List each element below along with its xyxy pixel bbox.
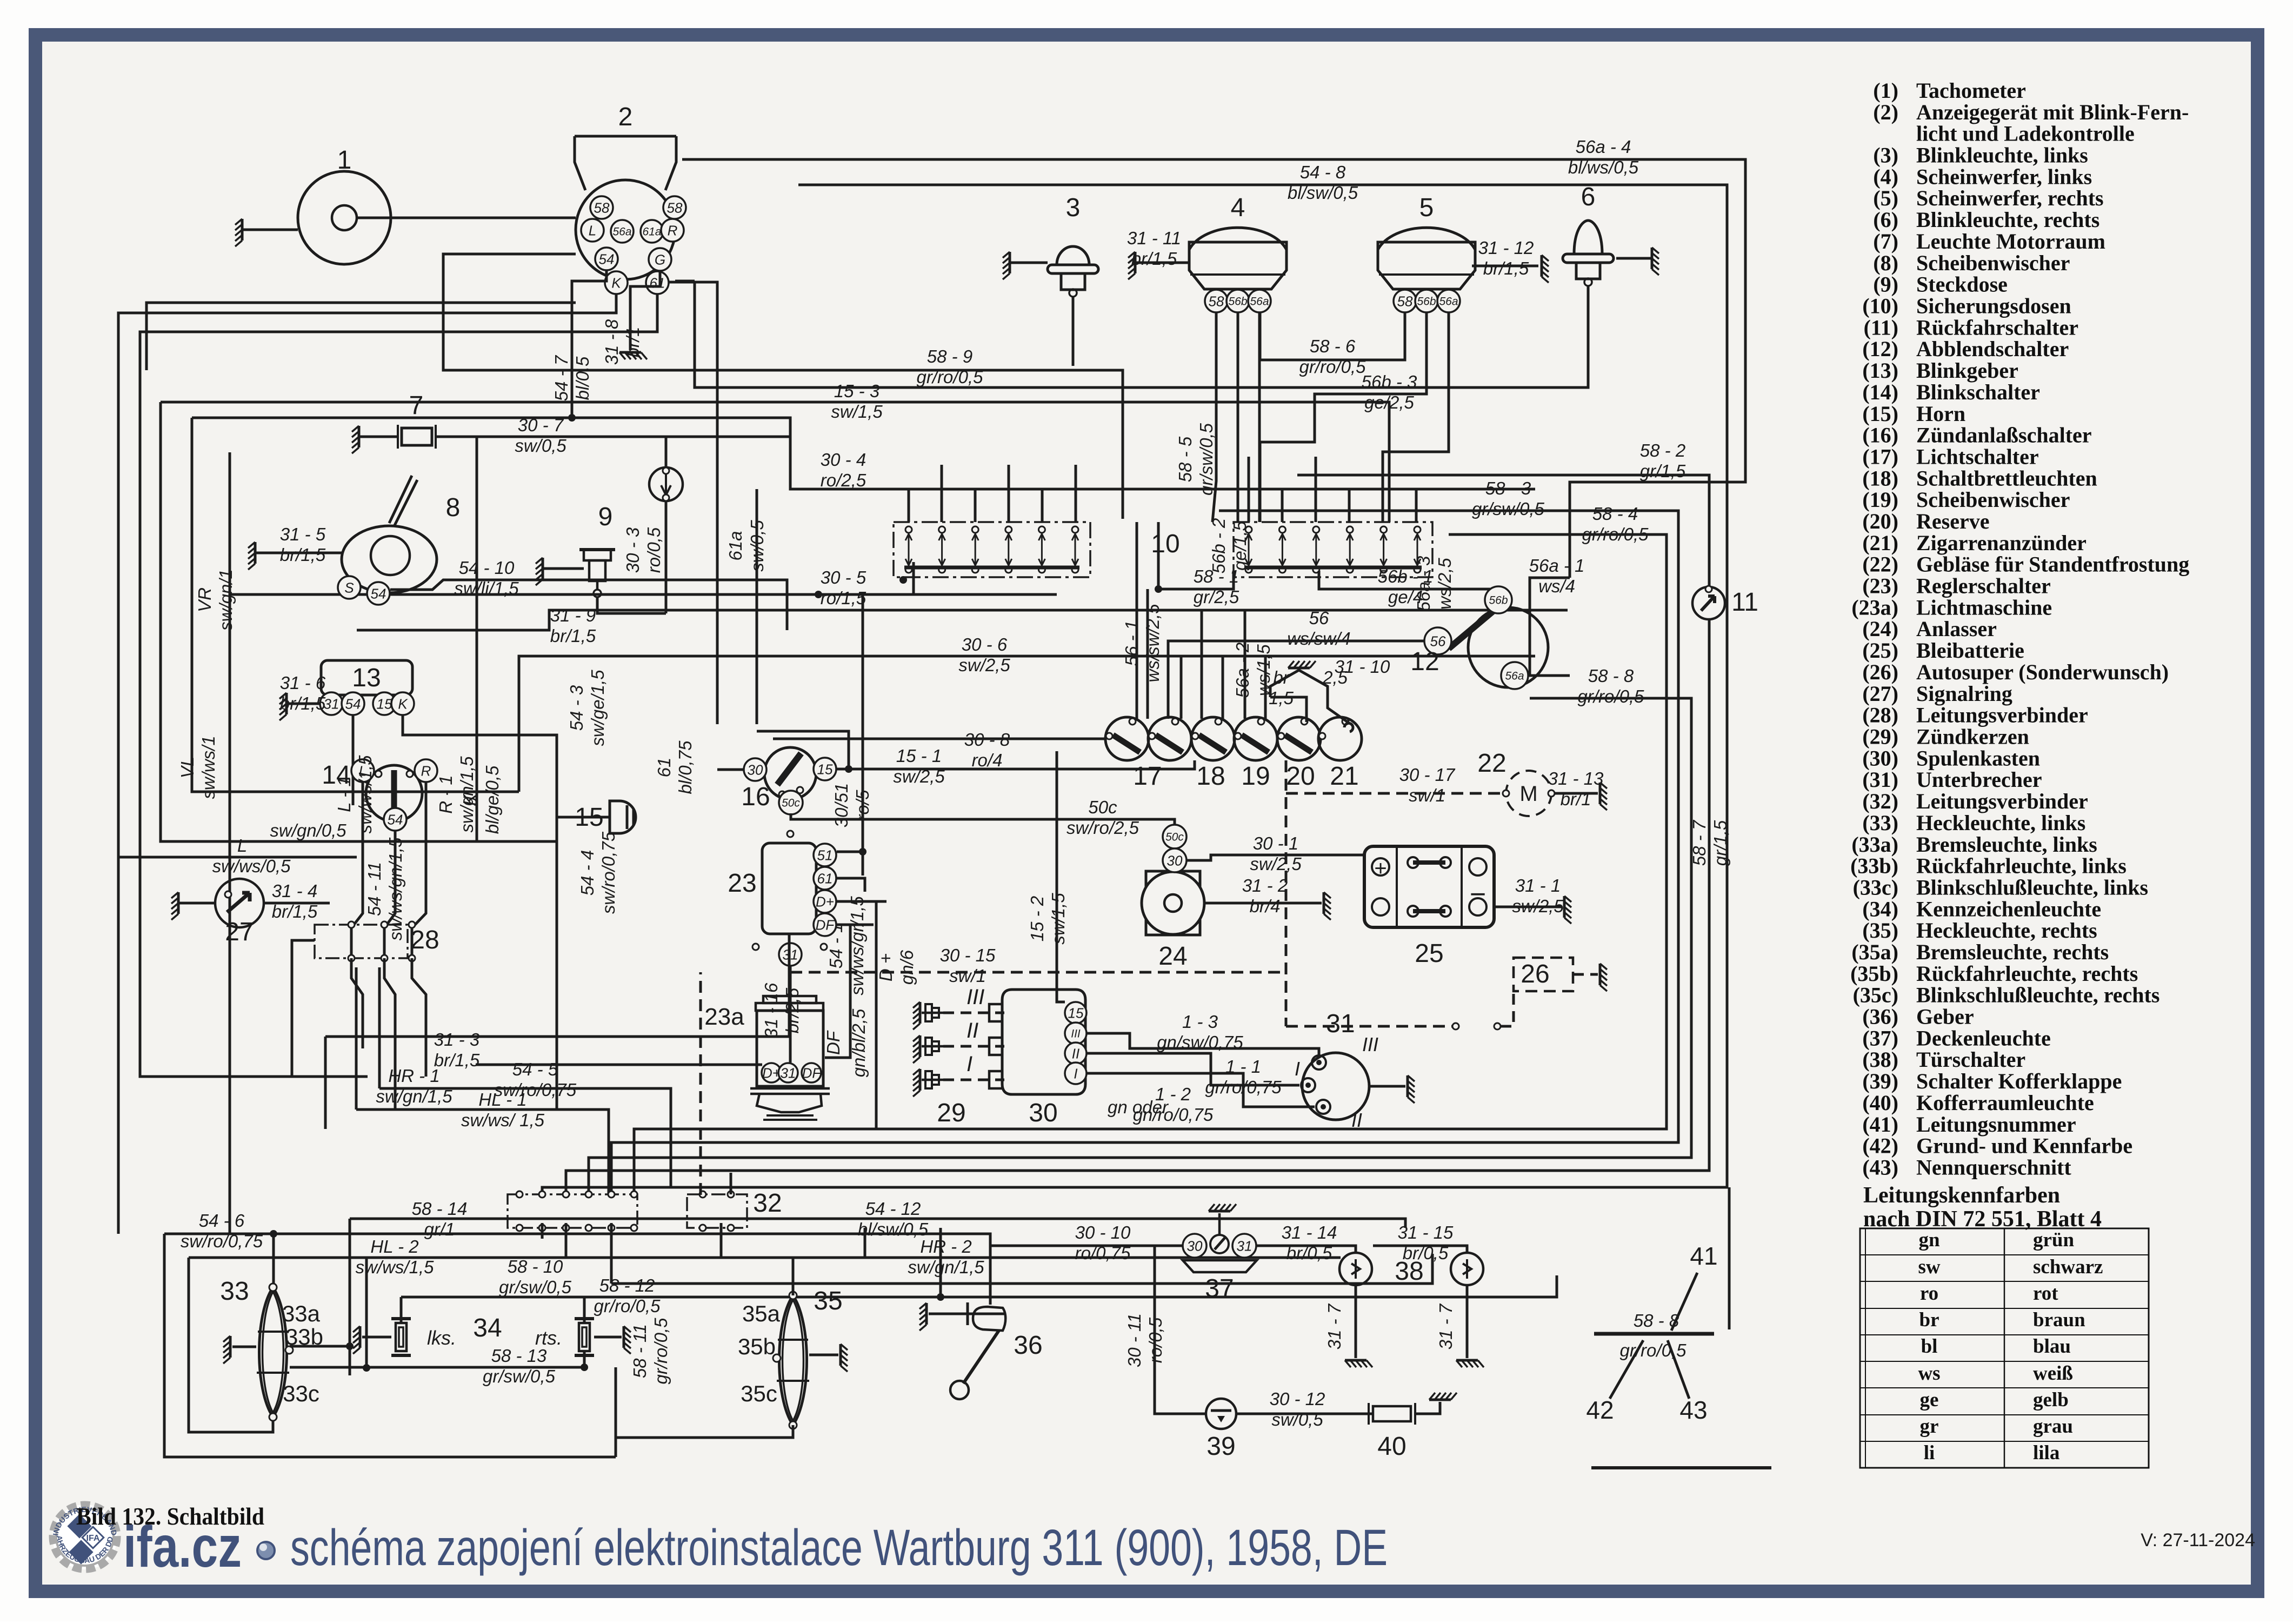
svg-text:32: 32 — [753, 1189, 782, 1218]
wire sw feed3 — [1180, 656, 1183, 719]
svg-text:16: 16 — [741, 783, 770, 811]
wire 58-1 — [1157, 522, 1160, 589]
coil box tabs — [989, 1004, 1002, 1088]
svg-text:ge/4: ge/4 — [1388, 587, 1423, 607]
svg-text:HR - 1: HR - 1 — [388, 1066, 439, 1086]
terminal 30-15t — [1065, 1002, 1086, 1024]
wire 31-8 gnd lead — [630, 271, 660, 350]
svg-text:56a - 2: 56a - 2 — [1232, 643, 1252, 698]
svg-text:30 - 10: 30 - 10 — [1075, 1222, 1131, 1242]
wire 33b wire — [290, 1345, 349, 1348]
wire 3051 wire — [862, 594, 864, 876]
svg-text:30: 30 — [1029, 1099, 1057, 1127]
svg-text:Blinkleuchte, links: Blinkleuchte, links — [1916, 143, 2088, 168]
svg-text:Horn: Horn — [1916, 402, 1965, 426]
svg-text:(31): (31) — [1862, 767, 1898, 792]
lamp 6 — [1563, 220, 1614, 286]
wire tacho ground lead — [242, 229, 298, 231]
svg-text:54 - 7: 54 - 7 — [551, 355, 571, 401]
wire 56a-12 — [1528, 674, 1570, 677]
svg-text:sw/ws/ 1,5: sw/ws/ 1,5 — [461, 1110, 545, 1130]
svg-text:D +: D + — [876, 953, 896, 981]
svg-text:schéma zapojení elektroinstala: schéma zapojení elektroinstalace Wartbur… — [290, 1519, 1388, 1576]
svg-text:31 - 13: 31 - 13 — [1548, 768, 1604, 788]
svg-text:39: 39 — [1207, 1432, 1235, 1461]
wire lineA — [146, 303, 576, 370]
svg-text:gr/1: gr/1 — [424, 1219, 455, 1239]
wire 32L pin drop — [541, 1223, 544, 1234]
svg-text:58: 58 — [1397, 293, 1413, 309]
svg-text:lks.: lks. — [427, 1327, 456, 1349]
svg-text:30 - 1: 30 - 1 — [1253, 833, 1298, 853]
terminal 5-56b — [1415, 290, 1438, 312]
svg-text:8: 8 — [446, 493, 461, 522]
svg-text:II: II — [966, 1019, 978, 1042]
svg-text:bl/0,75: bl/0,75 — [675, 740, 695, 794]
svg-text:Kennzeichenleuchte: Kennzeichenleuchte — [1916, 897, 2101, 921]
svg-text:31: 31 — [1237, 1238, 1252, 1254]
terminal 23-51 — [814, 844, 836, 866]
plug I — [922, 1071, 943, 1088]
svg-text:DF: DF — [802, 1065, 822, 1081]
svg-text:Leitungsnummer: Leitungsnummer — [1916, 1112, 2076, 1137]
svg-text:37: 37 — [1205, 1274, 1234, 1303]
svg-text:br: br — [1273, 667, 1290, 687]
wire fuse feed L3 — [1008, 465, 1010, 522]
svg-text:33c: 33c — [283, 1381, 319, 1406]
svg-text:Reglerschalter: Reglerschalter — [1916, 574, 2051, 598]
svg-text:38: 38 — [1395, 1257, 1423, 1286]
wire 31-12 lead — [1472, 265, 1538, 268]
wire 31-11 lead — [1135, 262, 1188, 264]
svg-text:22: 22 — [1477, 749, 1506, 778]
wire loop 30-4 — [192, 418, 519, 792]
svg-text:35b: 35b — [738, 1334, 776, 1359]
svg-text:ge/2,5: ge/2,5 — [1364, 392, 1414, 412]
svg-text:(25): (25) — [1862, 638, 1898, 663]
svg-text:30 - 6: 30 - 6 — [962, 634, 1008, 654]
terminal 23a-D+ — [762, 1063, 781, 1082]
ground G25 — [1563, 896, 1566, 918]
svg-text:licht und Ladekontrolle: licht und Ladekontrolle — [1916, 122, 2135, 146]
svg-text:(7): (7) — [1873, 229, 1898, 253]
sender 36 — [950, 1302, 1005, 1399]
svg-text:(28): (28) — [1862, 703, 1898, 727]
wire 28 dn3 — [412, 958, 426, 1077]
svg-text:15: 15 — [377, 696, 392, 712]
wire 20 drop dash — [1285, 760, 1288, 1026]
ground G13 — [285, 693, 288, 714]
svg-text:56b: 56b — [1228, 296, 1247, 308]
svg-text:G: G — [655, 251, 665, 268]
svg-text:sw/2,5: sw/2,5 — [1512, 896, 1564, 916]
svg-text:bl/ws/0,5: bl/ws/0,5 — [1568, 157, 1639, 177]
svg-text:(38): (38) — [1862, 1047, 1898, 1072]
ground G5 — [1541, 255, 1543, 277]
svg-text:30/51: 30/51 — [831, 783, 851, 828]
svg-text:30: 30 — [748, 761, 763, 778]
svg-text:sw/ws/1,5: sw/ws/1,5 — [356, 1257, 435, 1277]
svg-text:Rückfahrleuchte, rechts: Rückfahrleuchte, rechts — [1916, 961, 2138, 986]
regulator 23 — [762, 843, 816, 934]
wire plug dash 0 — [943, 1012, 1004, 1014]
wire 50c wire — [791, 813, 1175, 825]
svg-text:Leitungsverbinder: Leitungsverbinder — [1916, 703, 2088, 727]
wire fuse feed L5 — [1075, 465, 1077, 522]
svg-text:schwarz: schwarz — [2033, 1256, 2103, 1278]
svg-text:11: 11 — [1731, 588, 1758, 617]
svg-text:17: 17 — [1133, 762, 1162, 791]
svg-text:VR: VR — [195, 587, 215, 612]
svg-text:31 - 5: 31 - 5 — [280, 524, 326, 544]
svg-text:13: 13 — [352, 664, 381, 692]
svg-text:lila: lila — [2033, 1442, 2059, 1464]
svg-text:58 - 11: 58 - 11 — [630, 1324, 650, 1378]
wire tacho feed — [357, 217, 576, 219]
svg-text:54: 54 — [388, 811, 403, 827]
svg-text:(17): (17) — [1862, 445, 1898, 469]
wire L-wire — [118, 856, 357, 859]
terminal 24-30 — [1163, 848, 1187, 872]
svg-text:gr/1,5: gr/1,5 — [1640, 461, 1686, 481]
wire ptr43 — [1668, 1340, 1689, 1399]
svg-text:II: II — [1072, 1045, 1079, 1061]
switch 17 — [1105, 717, 1149, 760]
wire 36 feed — [542, 1234, 990, 1305]
terminal 30-I — [1065, 1062, 1086, 1084]
wire 56-1 v — [1146, 589, 1149, 719]
wire 30-5 run — [230, 452, 1057, 594]
terminal 2-R — [661, 219, 684, 242]
svg-text:Scheinwerfer, links: Scheinwerfer, links — [1916, 164, 2092, 189]
svg-text:grau: grau — [2033, 1415, 2073, 1438]
svg-text:20: 20 — [1286, 762, 1315, 791]
wire VR run — [118, 295, 616, 1234]
svg-text:(33): (33) — [1862, 811, 1898, 835]
wire 31-9 run — [357, 610, 1568, 630]
svg-text:61: 61 — [817, 870, 833, 886]
svg-text:Gebläse für Standentfrostung: Gebläse für Standentfrostung — [1916, 552, 2189, 577]
svg-text:Bremsleuchte, links: Bremsleuchte, links — [1916, 832, 2097, 857]
svg-text:L: L — [237, 836, 247, 856]
wire sw feed8 — [1270, 697, 1307, 722]
wire 58-12 ext — [941, 1275, 1557, 1297]
svg-text:gr/ro/0,5: gr/ro/0,5 — [594, 1296, 661, 1316]
wire 58-7 line — [1728, 1187, 1731, 1329]
svg-text:30 - 8: 30 - 8 — [964, 730, 1010, 750]
ground G9 — [542, 558, 544, 579]
wire 56a-3 drop — [1383, 312, 1449, 522]
wiper motor 8 — [342, 476, 437, 593]
svg-text:25: 25 — [1415, 939, 1443, 968]
svg-text:sw/2,5: sw/2,5 — [1250, 854, 1302, 874]
svg-text:Autosuper (Sonderwunsch): Autosuper (Sonderwunsch) — [1916, 660, 2169, 684]
svg-text:Geber: Geber — [1916, 1005, 1974, 1029]
svg-text:L - 1: L - 1 — [334, 777, 354, 812]
wire 602 v — [324, 1037, 327, 1129]
svg-text:D+: D+ — [816, 893, 834, 910]
svg-text:sw/0,5: sw/0,5 — [747, 520, 767, 572]
svg-text:61a: 61a — [725, 531, 745, 560]
wire 13 54 down — [352, 715, 355, 805]
svg-text:18: 18 — [1196, 762, 1225, 791]
pin 32L — [608, 1191, 615, 1198]
svg-text:4: 4 — [1231, 193, 1245, 222]
junction j58-12 — [937, 1293, 944, 1301]
horn ring 27 — [215, 879, 264, 927]
wire 58-5 drop — [1212, 312, 1216, 522]
ground G10 — [1288, 667, 1310, 670]
terminal 23-31 — [779, 943, 802, 966]
wire 30-10 wire — [990, 1245, 1183, 1247]
svg-text:35a: 35a — [742, 1301, 781, 1326]
svg-text:gn oder: gn oder — [1108, 1097, 1169, 1117]
radio leads — [1452, 1023, 1501, 1030]
svg-text:(43): (43) — [1862, 1155, 1898, 1180]
svg-text:(36): (36) — [1862, 1005, 1898, 1029]
terminal 37-30 — [1183, 1234, 1207, 1258]
svg-text:28: 28 — [410, 926, 439, 954]
wire 15-2 v — [1057, 751, 1065, 1002]
fuse box 10 left — [894, 522, 1090, 577]
svg-text:Lichtmaschine: Lichtmaschine — [1916, 595, 2052, 619]
wire 30-17 dash — [1286, 792, 1502, 795]
wire 58-8 bus — [589, 698, 1691, 1195]
ground G34l — [359, 1326, 362, 1348]
pin 32L — [585, 1191, 592, 1198]
svg-text:(35c): (35c) — [1853, 983, 1898, 1007]
svg-text:(10): (10) — [1862, 294, 1898, 318]
wire ptr41 — [1671, 1273, 1697, 1331]
svg-text:R: R — [668, 222, 678, 238]
wire 32 feed6 — [730, 1173, 732, 1194]
svg-text:54 - 8: 54 - 8 — [1300, 162, 1346, 182]
svg-text:gr/ro/0,5: gr/ro/0,5 — [1299, 357, 1367, 377]
svg-text:(16): (16) — [1862, 423, 1898, 447]
ground G38l — [1345, 1359, 1367, 1362]
svg-text:gr/ro/0,5: gr/ro/0,5 — [651, 1318, 671, 1385]
svg-text:ro/4: ro/4 — [972, 750, 1003, 770]
terminal 23-D+ — [814, 890, 836, 913]
svg-text:56: 56 — [1430, 633, 1446, 649]
wire plug dash 1 — [943, 1045, 1004, 1048]
svg-text:Anzeigegerät mit Blink-Fern-: Anzeigegerät mit Blink-Fern- — [1916, 100, 2189, 124]
junction j58-1 — [1155, 585, 1162, 593]
svg-text:(5): (5) — [1873, 186, 1898, 210]
svg-text:54: 54 — [345, 696, 361, 712]
wire 58-10 h — [611, 1254, 1432, 1284]
svg-text:(12): (12) — [1862, 337, 1898, 361]
wire fuse feed R2 — [1315, 457, 1317, 522]
svg-text:31 - 16: 31 - 16 — [761, 983, 781, 1038]
wire 58-3 bus — [611, 511, 1678, 1195]
svg-text:56a: 56a — [612, 226, 631, 238]
svg-text:sw/ro/0,75: sw/ro/0,75 — [494, 1080, 577, 1100]
svg-text:gr/sw/0,5: gr/sw/0,5 — [499, 1277, 572, 1297]
svg-text:31 - 15: 31 - 15 — [1398, 1222, 1454, 1242]
junction j5813 — [363, 1364, 370, 1372]
wire 34r gnd lead — [594, 1336, 622, 1339]
svg-text:42: 42 — [1586, 1396, 1614, 1424]
junction j58-13 — [581, 1364, 588, 1371]
svg-text:31 - 7: 31 - 7 — [1324, 1303, 1344, 1349]
svg-text:gelb: gelb — [2033, 1389, 2069, 1411]
svg-text:30: 30 — [1167, 852, 1183, 868]
wire HL-2 h — [189, 1228, 865, 1258]
svg-text:61a: 61a — [642, 226, 661, 238]
svg-text:56b: 56b — [1489, 594, 1508, 607]
wire lead13 — [286, 703, 320, 705]
fuse box 10 right — [1234, 522, 1432, 577]
wire D+ wire — [837, 900, 886, 903]
svg-text:(23): (23) — [1862, 574, 1898, 598]
wire 30-11 v — [1155, 1246, 1206, 1414]
terminal 2-61 — [646, 271, 669, 294]
terminal 23a-DF — [802, 1063, 822, 1082]
turn switch 14 — [366, 765, 422, 821]
wire 30-1 wire — [1187, 855, 1364, 860]
svg-text:ge/1,5: ge/1,5 — [1230, 520, 1250, 570]
wire 31-2 wire — [1204, 902, 1322, 905]
ground Gp0 — [919, 1002, 922, 1024]
svg-text:36: 36 — [1014, 1331, 1042, 1360]
svg-text:(13): (13) — [1862, 358, 1898, 383]
svg-text:gr/ro/0,5: gr/ro/0,5 — [1620, 1340, 1687, 1360]
door switch 38 left — [1339, 1253, 1372, 1285]
svg-text:56a: 56a — [1439, 296, 1458, 308]
svg-text:VL: VL — [177, 757, 197, 778]
plug III — [922, 1004, 943, 1021]
svg-text:31 - 9: 31 - 9 — [550, 605, 596, 625]
wire 34l top — [400, 1297, 403, 1323]
wire 58-14 drop — [349, 1219, 351, 1375]
ground G27 — [177, 892, 180, 914]
svg-text:15 - 3: 15 - 3 — [834, 381, 880, 401]
svg-text:R - 1: R - 1 — [436, 775, 456, 814]
svg-text:54 - 3: 54 - 3 — [566, 685, 586, 731]
svg-text:sw/gn/1,5: sw/gn/1,5 — [376, 1086, 452, 1106]
socket 9 — [579, 550, 615, 597]
svg-text:M: M — [1519, 782, 1537, 806]
wire 27 wire — [264, 902, 330, 905]
svg-text:br: br — [1919, 1309, 1939, 1331]
wire sw feed5 — [1222, 656, 1224, 719]
svg-text:ro/2,5: ro/2,5 — [821, 470, 866, 490]
terminal 13-31 — [320, 692, 343, 715]
svg-text:(27): (27) — [1862, 681, 1898, 706]
wiper 19 feed — [649, 467, 683, 501]
wire sw feed6 — [1244, 610, 1247, 719]
wire 30-6 loop — [519, 656, 986, 792]
svg-text:(34): (34) — [1862, 897, 1898, 921]
svg-text:Sicherungsdosen: Sicherungsdosen — [1916, 294, 2071, 318]
svg-text:(30): (30) — [1862, 746, 1898, 770]
svg-text:31 - 1: 31 - 1 — [1515, 876, 1561, 895]
svg-text:5: 5 — [1419, 193, 1434, 222]
svg-text:56a: 56a — [1250, 296, 1269, 308]
svg-text:30 - 11: 30 - 11 — [1124, 1313, 1144, 1367]
svg-text:50c: 50c — [782, 797, 800, 810]
svg-text:Leuchte Motorraum: Leuchte Motorraum — [1916, 229, 2105, 253]
distributor 31 — [1301, 1053, 1369, 1120]
svg-text:30 - 12: 30 - 12 — [1270, 1389, 1325, 1409]
ground G24 — [1323, 892, 1325, 914]
junction j54-6 — [270, 1230, 277, 1238]
ground G34r — [623, 1326, 625, 1348]
svg-text:(2): (2) — [1873, 100, 1898, 124]
svg-text:(19): (19) — [1862, 487, 1898, 512]
svg-text:Leitungskennfarben: Leitungskennfarben — [1863, 1183, 2060, 1208]
terminal 2-58L — [590, 196, 613, 219]
svg-text:ro/0,5: ro/0,5 — [644, 527, 664, 573]
wire 61 wire — [669, 282, 717, 724]
svg-text:br/4: br/4 — [1250, 896, 1281, 916]
svg-text:(29): (29) — [1862, 725, 1898, 749]
svg-text:br/1,5: br/1,5 — [550, 626, 596, 646]
svg-text:Zündanlaßschalter: Zündanlaßschalter — [1916, 423, 2092, 447]
svg-text:(35b): (35b) — [1850, 961, 1898, 986]
svg-text:sw/ro/0,75: sw/ro/0,75 — [181, 1231, 263, 1251]
svg-text:31 - 11: 31 - 11 — [1127, 228, 1181, 248]
svg-text:31: 31 — [781, 1065, 796, 1081]
svg-text:31: 31 — [1326, 1010, 1355, 1038]
svg-text:58 - 2: 58 - 2 — [1640, 440, 1685, 460]
svg-text:(22): (22) — [1862, 552, 1898, 577]
svg-text:30 - 3: 30 - 3 — [623, 527, 643, 573]
svg-text:sw/1: sw/1 — [1409, 785, 1445, 805]
svg-text:br/1,5: br/1,5 — [272, 901, 318, 921]
terminal 2-L — [581, 219, 604, 242]
wire lead3 — [1010, 262, 1048, 264]
terminal 12-56a — [1501, 662, 1528, 689]
svg-text:K: K — [398, 696, 408, 712]
dome light 37 — [1183, 1213, 1257, 1272]
wire 54-7 drop — [572, 270, 606, 418]
wire HR-2 wire — [721, 1223, 1341, 1258]
wire 28 left tap — [292, 940, 315, 1077]
terminal 14-L — [351, 759, 374, 782]
wire 31-15 wire — [1373, 1246, 1467, 1253]
svg-text:54: 54 — [371, 585, 386, 602]
switch 20 — [1234, 717, 1277, 760]
svg-text:19: 19 — [1241, 762, 1270, 791]
terminal 13-15 — [373, 692, 396, 715]
svg-text:(37): (37) — [1862, 1026, 1898, 1050]
wire 56a-4 bus — [682, 159, 1745, 578]
pin 32R — [699, 1191, 706, 1198]
wire 1-2 wire — [1086, 1073, 1315, 1107]
wire sw feed4 — [1201, 610, 1203, 719]
wire 54-12 lbl wire — [989, 1233, 992, 1235]
wire 56 wire — [1168, 641, 1424, 719]
svg-text:ifa.cz: ifa.cz — [123, 1514, 242, 1579]
svg-text:braun: braun — [2033, 1309, 2085, 1331]
ground G33 — [229, 1336, 232, 1358]
svg-text:sw/li/1,5: sw/li/1,5 — [454, 578, 519, 598]
svg-text:Abblendschalter: Abblendschalter — [1916, 337, 2069, 361]
svg-text:(4): (4) — [1873, 164, 1898, 189]
wire horn feed — [557, 816, 610, 819]
svg-text:Heckleuchte, rechts: Heckleuchte, rechts — [1916, 918, 2097, 943]
lamp 3 — [1048, 246, 1098, 297]
terminal 12-56b — [1485, 586, 1512, 613]
wire 1-1 wire — [1086, 1053, 1299, 1085]
svg-text:31 - 2: 31 - 2 — [1242, 876, 1288, 895]
svg-text:31 - 7: 31 - 7 — [1436, 1303, 1456, 1349]
wire 58-2 bus — [566, 475, 1709, 1195]
svg-text:3: 3 — [1066, 193, 1081, 222]
svg-text:III: III — [1071, 1028, 1081, 1040]
